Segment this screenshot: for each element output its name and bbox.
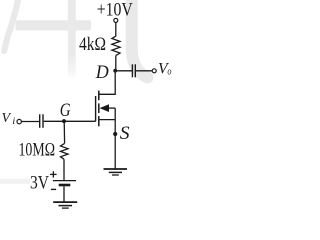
svg-text:3V: 3V <box>30 173 49 194</box>
terminal Vi <box>17 119 21 123</box>
ground battery <box>53 201 77 203</box>
svg-text:+10V: +10V <box>97 0 133 21</box>
svg-text:10MΩ: 10MΩ <box>19 139 56 160</box>
wire resistor to battery <box>63 159 65 180</box>
battery minus sign <box>51 189 56 190</box>
wire source stub <box>99 119 115 121</box>
wire Vi to input capacitor <box>21 121 39 123</box>
svg-text:V: V <box>2 111 12 126</box>
svg-text:4kΩ: 4kΩ <box>79 34 106 55</box>
svg-text:o: o <box>167 67 171 78</box>
node D junction dot <box>113 69 117 73</box>
terminal Vo <box>152 69 156 73</box>
svg-text:i: i <box>12 117 15 127</box>
wire capacitor to Vo terminal <box>136 70 152 72</box>
wire capacitor to gate <box>44 120 96 122</box>
battery plus sign <box>50 173 57 175</box>
wire +10V terminal to resistor <box>115 22 117 36</box>
transistor Q1 channel segments <box>98 91 100 101</box>
terminal +10V <box>114 18 118 22</box>
battery 3V negative plate <box>59 184 71 187</box>
node S junction dot <box>113 132 117 136</box>
battery 3V positive plate <box>53 180 76 182</box>
svg-text:D: D <box>95 62 109 83</box>
node G junction dot <box>62 119 66 123</box>
wire resistor to node D <box>115 56 117 71</box>
svg-text:S: S <box>120 123 130 144</box>
resistor 10MΩ zigzag <box>61 143 69 159</box>
wire body to source <box>114 108 116 120</box>
transistor Q1 body arrow <box>100 104 110 112</box>
wire node G down to resistor <box>63 121 65 143</box>
wire node D to output capacitor <box>115 70 132 72</box>
capacitor output plates <box>131 64 133 77</box>
resistor 4kΩ zigzag <box>112 36 120 55</box>
wire node D down to drain stub <box>99 71 115 95</box>
transistor Q1 gate line <box>95 96 97 121</box>
wire battery to ground <box>63 186 65 202</box>
ground source <box>104 168 128 170</box>
svg-text:G: G <box>60 100 71 121</box>
capacitor input plates <box>39 114 41 128</box>
wire source down to ground <box>114 120 116 169</box>
